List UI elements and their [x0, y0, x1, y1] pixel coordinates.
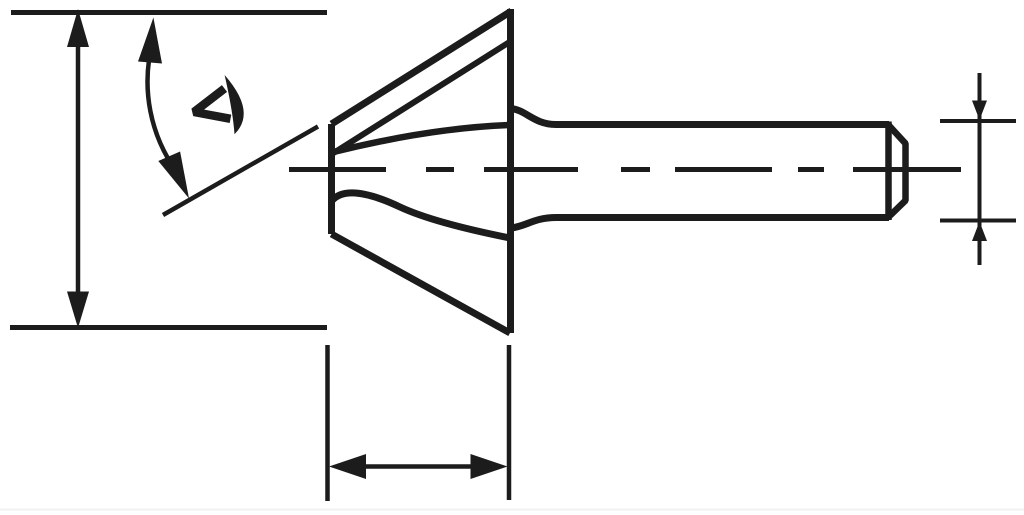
neck bottom fillet and shank bottom edge	[511, 218, 889, 229]
shank end chamfers and outer edge	[889, 125, 906, 217]
bottom dimension extension line right	[507, 345, 512, 500]
lower flute curve	[333, 193, 511, 238]
right dimension bottom tick	[940, 219, 1016, 223]
upper flute curve	[334, 125, 511, 152]
cutter small-end edge	[328, 124, 335, 234]
cutter top edge	[332, 11, 512, 124]
right dimension arrowhead up	[972, 222, 987, 242]
dimension arrowhead up (cutter diameter)	[67, 9, 89, 47]
angle reference line (diagonal)	[163, 127, 318, 216]
cutter bottom edge	[332, 234, 511, 333]
shank end face edge	[885, 122, 892, 221]
angle label alpha chevron stroke	[194, 89, 231, 119]
bottom dimension extension line left	[325, 345, 330, 501]
bottom dimension arrowhead left	[329, 454, 366, 479]
angle label alpha curved stroke	[225, 75, 244, 134]
faint scan line at bottom edge	[0, 509, 1024, 511]
angle arc arrowhead top	[138, 18, 162, 64]
centerline dash 7	[853, 167, 961, 172]
dimension arrowhead down (cutter diameter)	[67, 292, 89, 329]
centerline dash 1	[289, 167, 386, 172]
centerline dash 4	[621, 167, 650, 172]
centerline dash 2	[426, 167, 454, 172]
centerline dash 6	[798, 167, 824, 172]
bottom dimension arrowhead right	[471, 454, 508, 479]
cutting land edge	[334, 42, 510, 153]
angle arc arrowhead bottom	[158, 152, 189, 199]
bottom extension line (cutter diameter, lower)	[10, 325, 327, 330]
neck top fillet and shank top edge	[511, 109, 889, 125]
vertical dimension line (cutter diameter)	[76, 30, 81, 310]
right dimension arrowhead down	[972, 101, 987, 121]
angle dimension arc	[148, 60, 168, 159]
bottom dimension line (small diameter)	[360, 464, 476, 469]
top extension line (cutter diameter, upper)	[11, 10, 327, 15]
right dimension top tick	[940, 119, 1016, 123]
cutter large-end edge	[507, 9, 514, 333]
right dimension line vertical (shank diameter)	[978, 73, 982, 265]
centerline dash 5	[675, 167, 772, 172]
centerline dash 3	[484, 167, 578, 172]
